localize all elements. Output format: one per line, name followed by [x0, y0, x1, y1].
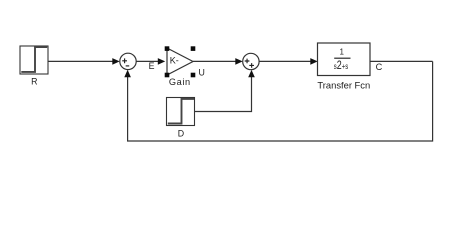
svg-text:C: C: [376, 62, 383, 72]
wire Transfer Fcn output (signal C): [370, 60, 433, 62]
svg-text:R: R: [31, 77, 37, 87]
selection handle top-left: [165, 46, 170, 51]
sum junction Sum2: [243, 53, 259, 69]
step block D: [167, 98, 195, 126]
sum junction Sum1: [120, 53, 136, 69]
selection handle bottom-left: [165, 73, 170, 78]
wire Gain to Sum2: [193, 58, 243, 65]
wire Sum1 to Gain (signal E): [136, 58, 165, 65]
transfer function block Transfer Fcn: [318, 43, 371, 76]
svg-text:D: D: [178, 129, 184, 139]
svg-text:1: 1: [339, 47, 344, 56]
svg-text:K-: K-: [170, 56, 179, 66]
wire R to Sum1: [48, 58, 120, 65]
wire D to Sum2: [195, 70, 255, 112]
svg-text:Gain: Gain: [169, 77, 191, 87]
svg-text:U: U: [199, 68, 205, 78]
wire Sum2 to Transfer Fcn: [259, 58, 318, 65]
svg-text:Transfer Fcn: Transfer Fcn: [317, 79, 370, 90]
svg-text:E: E: [149, 61, 155, 71]
selection handle top-right: [191, 46, 196, 51]
feedback wire: [124, 61, 432, 141]
selection handle bottom-right: [191, 73, 196, 78]
gain block Gain: [167, 48, 193, 75]
step block R: [20, 46, 48, 74]
